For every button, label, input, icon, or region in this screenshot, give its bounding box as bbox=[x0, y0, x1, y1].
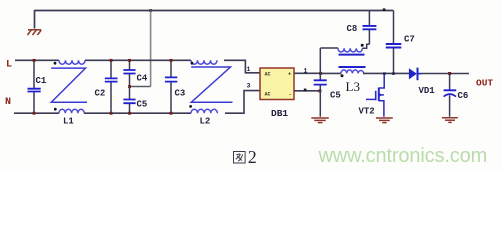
capacitor C7 bbox=[386, 11, 415, 74]
node N input label bbox=[5, 97, 11, 108]
svg-text:L3: L3 bbox=[346, 79, 360, 94]
transformer L3 bbox=[320, 44, 369, 94]
node L input label bbox=[6, 60, 12, 71]
wire DB1 output top bbox=[294, 72, 321, 74]
svg-text:C3: C3 bbox=[175, 89, 186, 99]
node output junction bbox=[448, 72, 451, 75]
wire DC bus to drain/diode bbox=[321, 72, 470, 74]
capacitor C3 bbox=[165, 59, 185, 115]
svg-text:L: L bbox=[6, 60, 12, 71]
svg-text:OUT: OUT bbox=[476, 78, 493, 89]
caption figure 2 bbox=[234, 147, 257, 167]
capacitor C6 (electrolytic) bbox=[444, 74, 469, 117]
watermark bbox=[318, 145, 488, 167]
wire DB1 output bottom bbox=[294, 90, 320, 92]
svg-text:N: N bbox=[5, 97, 11, 108]
pin number 3 (DB1 left bottom) bbox=[247, 83, 251, 90]
svg-text:VT2: VT2 bbox=[359, 107, 375, 117]
capacitor C8 bbox=[347, 11, 377, 45]
pin number 1 (DB1 left top) bbox=[247, 66, 251, 73]
node rail junction bbox=[149, 9, 152, 12]
ground (output) bbox=[442, 118, 458, 123]
transistor VT2 (MOSFET) bbox=[359, 74, 385, 117]
ground (VT2 source) bbox=[376, 118, 393, 123]
svg-text:L2: L2 bbox=[200, 117, 211, 127]
node C7 junction bbox=[392, 72, 395, 75]
inductor L1 common-mode choke bbox=[51, 60, 87, 126]
svg-text:L1: L1 bbox=[63, 117, 74, 127]
svg-text:2: 2 bbox=[248, 147, 257, 167]
svg-text:C1: C1 bbox=[36, 76, 47, 86]
node junction bus top bbox=[319, 72, 322, 75]
svg-text:DB1: DB1 bbox=[271, 108, 288, 119]
svg-text:C7: C7 bbox=[404, 35, 415, 45]
svg-text:C2: C2 bbox=[95, 89, 106, 99]
capacitor C4 bbox=[123, 60, 148, 88]
svg-text:AC: AC bbox=[265, 72, 271, 78]
capacitor C5 (bulk, duplicate label) bbox=[314, 48, 341, 117]
inductor L2 common-mode choke bbox=[189, 60, 232, 126]
node drain junction bbox=[383, 72, 386, 75]
node dot on rail bbox=[383, 8, 386, 11]
ground (primary, under C5 bulk) bbox=[311, 118, 329, 123]
node junction bus bottom bbox=[318, 89, 321, 92]
node OUT label bbox=[476, 78, 493, 89]
node dot DB1 bottom pin bbox=[304, 89, 307, 92]
pin number 1 (DB1 right top) bbox=[304, 68, 308, 75]
svg-text:C5: C5 bbox=[137, 100, 148, 110]
capacitor C1 bbox=[28, 59, 47, 115]
svg-text:AC: AC bbox=[265, 92, 271, 98]
ground earth (chassis) top-left bbox=[27, 30, 41, 35]
svg-text:1: 1 bbox=[247, 66, 251, 73]
svg-text:www.cntronics.com: www.cntronics.com bbox=[318, 145, 488, 167]
wire L line bbox=[15, 60, 260, 73]
wire rail drop to C4/C5 midpoint bbox=[130, 11, 151, 87]
diode VD1 bbox=[409, 68, 435, 97]
capacitor C2 bbox=[95, 59, 118, 115]
wire N line bbox=[14, 91, 260, 114]
svg-text:1: 1 bbox=[304, 68, 308, 75]
svg-text:VD1: VD1 bbox=[419, 86, 436, 96]
wire top earth rail bbox=[35, 10, 394, 12]
svg-text:C4: C4 bbox=[137, 74, 148, 84]
svg-text:C6: C6 bbox=[458, 91, 469, 101]
wire rail left drop bbox=[34, 10, 36, 29]
svg-text:C5: C5 bbox=[330, 91, 341, 101]
svg-text:C8: C8 bbox=[347, 24, 358, 34]
capacitor C5 (Y-cap lower) bbox=[123, 59, 147, 115]
svg-text:3: 3 bbox=[247, 83, 251, 90]
svg-text:-: - bbox=[289, 91, 292, 98]
bridge rectifier DB1 bbox=[260, 68, 294, 119]
